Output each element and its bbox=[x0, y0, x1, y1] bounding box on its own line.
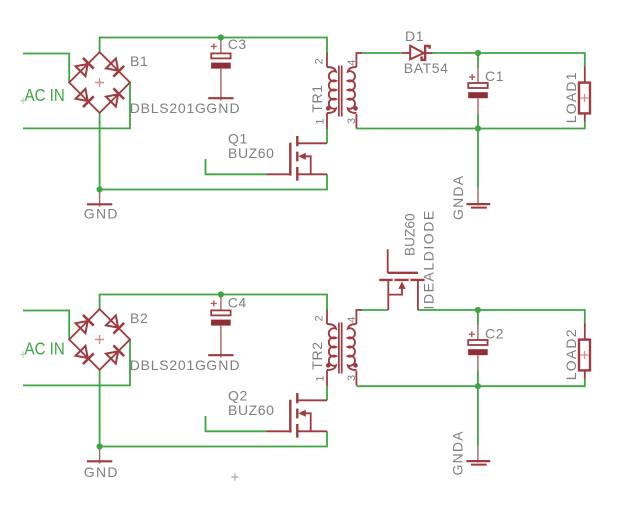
capacitor C2 plate + bbox=[468, 340, 487, 345]
wire C1 bottom bbox=[477, 114, 479, 129]
transformer TR1 primary winding bbox=[327, 67, 336, 113]
transformer TR1 dot secondary bbox=[353, 106, 358, 111]
transistor Q1 gate pin bbox=[266, 173, 290, 175]
transformer TR2 dot primary bbox=[326, 363, 331, 368]
svg-text:1: 1 bbox=[315, 375, 327, 381]
svg-text:TR2: TR2 bbox=[309, 341, 325, 369]
wire top rail to TR2 bbox=[100, 295, 327, 310]
svg-text:2: 2 bbox=[314, 315, 326, 321]
transformer TR2 pin 4 stub bbox=[356, 310, 362, 324]
wire secondary bottom rail 2 bbox=[356, 379, 584, 387]
capacitor C1 lead bottom bbox=[477, 98, 479, 114]
junction C2 bottom bbox=[475, 383, 481, 389]
svg-text:GNDA: GNDA bbox=[450, 430, 466, 475]
wire TR1 pin1 to Q1 drain bbox=[326, 129, 328, 143]
svg-text:B1: B1 bbox=[130, 53, 148, 69]
transformer TR2 dot secondary bbox=[353, 363, 358, 368]
wire GND rail bbox=[100, 174, 327, 189]
ground GND of C3 bar bbox=[208, 97, 233, 99]
wire M3 drain to C2/LOAD2 rail bbox=[418, 310, 585, 324]
svg-text:BAT54: BAT54 bbox=[404, 60, 449, 76]
transistor Q1 bulk arrow bbox=[298, 153, 306, 160]
transformer TR2 core bbox=[339, 323, 342, 374]
plus mark C4 bbox=[211, 300, 217, 306]
transistor Q1 gate bar bbox=[289, 143, 291, 176]
transistor Q2 channel bbox=[296, 393, 298, 438]
junction GND node B2 bbox=[97, 443, 103, 449]
wire D1 to C1/LOAD1 rail bbox=[433, 53, 585, 67]
bridge B2 center mark bbox=[95, 335, 104, 344]
svg-text:C1: C1 bbox=[485, 68, 504, 84]
svg-text:BUZ60: BUZ60 bbox=[228, 145, 275, 161]
wire GNDA2 drop bbox=[477, 386, 479, 446]
diode D1 anode pin bbox=[402, 52, 410, 54]
transformer TR1 secondary winding bbox=[348, 67, 357, 113]
transformer TR2 primary winding bbox=[327, 324, 336, 370]
svg-text:C4: C4 bbox=[228, 295, 247, 311]
transistor Q2 drain pin bbox=[297, 399, 327, 401]
capacitor C1 plate - bbox=[468, 92, 488, 98]
transformer TR1 pin 1 stub bbox=[326, 113, 328, 129]
junction C1 bottom bbox=[475, 125, 481, 131]
ground GND of B1 bar bbox=[87, 203, 112, 205]
transformer TR1 core bbox=[339, 66, 342, 117]
svg-text:GND: GND bbox=[84, 206, 119, 222]
bridge rectifier B2 bbox=[69, 309, 130, 370]
wire TR1 pin4 to D1 bbox=[360, 52, 402, 54]
transistor Q2 bulk arrow bbox=[298, 410, 306, 417]
junction C2 top bbox=[475, 307, 481, 313]
wire C2 top bbox=[477, 310, 479, 325]
transistor M3 ideal-diode gate pin bbox=[387, 249, 389, 272]
bridge rectifier B1 bbox=[69, 52, 130, 113]
transistor Q1 channel bbox=[296, 136, 298, 181]
bridge B1 center mark bbox=[95, 78, 104, 87]
transistor Q2 bulk bbox=[303, 413, 311, 431]
wire Q1 gate bbox=[206, 159, 267, 174]
load resistor LOAD2 body bbox=[579, 340, 590, 371]
ground GNDA1 bar2 bbox=[471, 207, 487, 209]
ground GND of C4 lead bbox=[220, 326, 222, 358]
svg-text:4: 4 bbox=[346, 60, 358, 66]
transformer TR2 pin 2 stub bbox=[326, 310, 328, 325]
transistor Q1 source pin bbox=[297, 173, 327, 175]
ground GNDA2 bar2 bbox=[471, 464, 487, 466]
transformer TR1 dot primary bbox=[326, 106, 331, 111]
junction C4/top rail bbox=[218, 291, 224, 297]
load LOAD2 plus mark bbox=[581, 351, 589, 359]
capacitor C2 lead bottom bbox=[477, 355, 479, 371]
capacitor C3 plate - bbox=[211, 63, 231, 69]
transformer TR2 pin 1 stub bbox=[326, 370, 328, 386]
capacitor C2 plate - bbox=[468, 349, 488, 355]
svg-text:Q2: Q2 bbox=[228, 387, 248, 403]
load LOAD1 pin bottom bbox=[584, 113, 586, 121]
diode D1 triangle bbox=[410, 46, 424, 60]
wire bridge B2 to GND node bbox=[99, 370, 101, 447]
svg-text:2: 2 bbox=[314, 58, 326, 64]
capacitor C3 lead top bbox=[220, 38, 222, 56]
svg-text:AC IN: AC IN bbox=[25, 85, 65, 106]
diode D1 schottky bar bbox=[422, 46, 430, 60]
svg-text:4: 4 bbox=[346, 317, 358, 323]
ground GNDA2 lead bbox=[477, 446, 479, 463]
origin mark AC IN top bbox=[20, 98, 26, 104]
wire AC1 bottom bbox=[23, 83, 130, 129]
transistor M3 left pin bbox=[387, 280, 389, 310]
wire bridge B1 to GND node bbox=[99, 113, 101, 190]
capacitor C2 lead top bbox=[477, 324, 479, 342]
stray origin mark bbox=[231, 473, 238, 480]
wire TR2 pin1 to Q2 drain bbox=[326, 386, 328, 400]
wire top rail to TR1 bbox=[100, 38, 327, 53]
capacitor C1 lead top bbox=[477, 67, 479, 85]
wire GND rail 2 bbox=[100, 431, 327, 446]
svg-text:C2: C2 bbox=[485, 326, 504, 342]
ground GND of C3 lead bbox=[220, 69, 222, 101]
svg-text:LOAD1: LOAD1 bbox=[563, 71, 579, 123]
transistor Q1 drain pin bbox=[297, 142, 327, 144]
plus mark C1 bbox=[469, 74, 475, 80]
wire C2 bottom bbox=[477, 371, 479, 386]
plus mark C2 bbox=[469, 331, 475, 337]
plus mark C3 bbox=[211, 43, 217, 49]
svg-text:BUZ60: BUZ60 bbox=[403, 213, 418, 256]
capacitor C4 plate - bbox=[211, 320, 231, 326]
svg-text:Q1: Q1 bbox=[228, 130, 248, 146]
transformer TR1 pin 3 stub bbox=[355, 114, 357, 129]
load LOAD1 pin top bbox=[584, 67, 586, 83]
transistor Q2 source pin bbox=[297, 430, 327, 432]
transistor M3 channel bbox=[379, 279, 424, 281]
origin mark AC IN bottom bbox=[20, 352, 26, 358]
ground GNDA1 bar1 bbox=[467, 203, 491, 205]
transistor Q2 gate bar bbox=[289, 400, 291, 433]
svg-text:AC IN: AC IN bbox=[25, 338, 65, 359]
wire Q2 gate bbox=[206, 416, 267, 431]
svg-text:1: 1 bbox=[315, 118, 327, 124]
svg-text:IDEALDIODE: IDEALDIODE bbox=[421, 209, 437, 309]
transistor M3 bulk bbox=[388, 286, 402, 295]
transformer TR1 pin 4 stub bbox=[356, 53, 362, 67]
wire secondary bottom rail bbox=[356, 122, 584, 129]
wire AC1 top bbox=[23, 54, 69, 83]
wire AC2 top bbox=[23, 311, 69, 340]
svg-text:DBLS201G: DBLS201G bbox=[130, 100, 207, 116]
capacitor C1 plate + bbox=[468, 83, 487, 88]
ground GNDA2 bar1 bbox=[466, 460, 490, 462]
wire TR2 pin4 to M3 source bbox=[360, 309, 388, 311]
transistor Q2 gate pin bbox=[266, 430, 290, 432]
ground GND of B2 lead bbox=[99, 447, 101, 464]
svg-text:3: 3 bbox=[346, 375, 358, 381]
load LOAD1 plus mark bbox=[581, 94, 589, 102]
junction GND node B1 bbox=[97, 186, 103, 192]
ground GND of B1 lead bbox=[99, 190, 101, 207]
capacitor C4 plate + bbox=[211, 310, 230, 315]
junction C1 top bbox=[475, 50, 481, 56]
svg-text:GNDA: GNDA bbox=[450, 175, 466, 220]
load LOAD2 pin top bbox=[584, 324, 586, 340]
transistor M3 gate bar bbox=[388, 272, 418, 274]
ground GNDA1 lead bbox=[477, 189, 479, 206]
wire AC2 bottom bbox=[23, 340, 130, 386]
ground GND of B2 bar bbox=[87, 460, 112, 462]
capacitor C4 lead top bbox=[220, 295, 222, 313]
svg-text:3: 3 bbox=[346, 118, 358, 124]
transformer TR2 secondary winding bbox=[348, 324, 357, 370]
svg-text:GND: GND bbox=[206, 100, 240, 116]
wire GNDA1 drop bbox=[477, 129, 479, 189]
svg-text:TR1: TR1 bbox=[309, 84, 325, 112]
transistor M3 bulk arrow bbox=[398, 281, 405, 289]
junction C3/top rail bbox=[218, 34, 224, 40]
transistor M3 right pin bbox=[417, 280, 419, 310]
diode D1 cathode pin bbox=[425, 52, 433, 54]
svg-text:LOAD2: LOAD2 bbox=[563, 328, 579, 380]
svg-text:C3: C3 bbox=[228, 36, 247, 52]
svg-text:BUZ60: BUZ60 bbox=[228, 402, 275, 418]
load resistor LOAD1 body bbox=[579, 83, 590, 114]
svg-text:D1: D1 bbox=[405, 28, 424, 44]
svg-text:GND: GND bbox=[84, 464, 119, 480]
wire C1 top bbox=[477, 53, 479, 68]
load LOAD2 pin bottom bbox=[584, 370, 586, 378]
ground GND of C4 bar bbox=[208, 354, 233, 356]
svg-text:GND: GND bbox=[206, 357, 240, 373]
transistor Q1 bulk bbox=[303, 156, 311, 174]
svg-text:B2: B2 bbox=[130, 310, 148, 326]
capacitor C3 plate + bbox=[211, 53, 230, 58]
svg-text:DBLS201G: DBLS201G bbox=[130, 357, 207, 373]
transformer TR1 pin 2 stub bbox=[326, 53, 328, 68]
transformer TR2 pin 3 stub bbox=[355, 371, 357, 386]
